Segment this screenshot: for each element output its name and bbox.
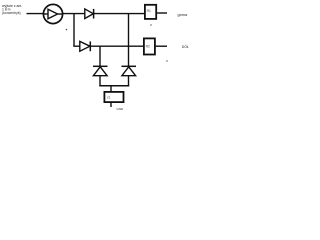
svg-text:GND: GND xyxy=(117,107,125,111)
diode D1 triangle xyxy=(85,9,94,19)
svg-text:R1: R1 xyxy=(147,9,151,13)
wire row2 horizontal xyxy=(73,45,144,47)
diode D1 cathode bar xyxy=(93,9,95,19)
note: antenna feed annotation xyxy=(2,4,22,15)
speck 1 xyxy=(66,29,68,31)
wire stub bus to box X1 xyxy=(110,86,112,93)
wire node C vertical (row2 to diode D3) xyxy=(99,46,101,66)
speck 2 xyxy=(150,24,151,25)
diode D3 cathode bar xyxy=(93,65,108,67)
source V1 circle xyxy=(43,4,62,23)
diode D4 cathode bar xyxy=(122,65,137,67)
box X1 (bottom) xyxy=(104,92,123,102)
source V1 internal wire right xyxy=(58,13,63,15)
wire top: source to resistor R1 xyxy=(62,13,145,15)
wire bottom bus xyxy=(99,85,129,87)
wire node A vertical drop xyxy=(73,14,75,47)
wire D4 anode lead xyxy=(128,76,130,87)
wire R1 output xyxy=(157,12,168,14)
diode D4 triangle xyxy=(122,67,136,76)
svg-text:(koncentryk): (koncentryk) xyxy=(2,11,21,15)
diode D2 triangle xyxy=(80,41,90,51)
svg-text:górna: górna xyxy=(178,13,189,17)
svg-text:x1: x1 xyxy=(107,95,111,99)
diode D3 triangle xyxy=(93,67,107,76)
source V1 internal wire left xyxy=(44,13,49,15)
wire from note to source xyxy=(27,13,45,15)
svg-text:R2: R2 xyxy=(146,44,150,48)
source V1 triangle xyxy=(48,9,58,19)
wire D3 anode lead xyxy=(99,76,101,87)
diode D2 cathode bar xyxy=(89,41,91,51)
resistor R2 box xyxy=(144,38,155,54)
wire stub below box X1 xyxy=(110,102,112,108)
speck 3 xyxy=(166,60,167,61)
wire node B vertical (top wire to diode D4) xyxy=(128,14,130,66)
svg-text:DÓŁ: DÓŁ xyxy=(182,44,189,49)
resistor R1 box xyxy=(145,5,156,19)
wire R2 output xyxy=(155,45,167,47)
